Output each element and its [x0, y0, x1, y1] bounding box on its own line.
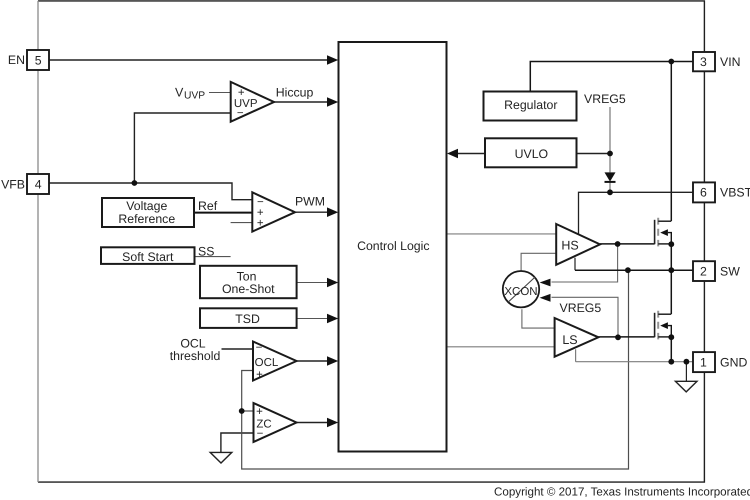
svg-text:+: + — [256, 369, 263, 381]
svg-text:+: + — [256, 406, 263, 418]
svg-text:VIN: VIN — [720, 55, 741, 69]
svg-text:LS: LS — [562, 333, 577, 347]
svg-text:Control Logic: Control Logic — [357, 239, 429, 253]
svg-text:EN: EN — [8, 53, 25, 67]
svg-text:GND: GND — [720, 356, 747, 370]
svg-text:+: + — [238, 87, 245, 99]
svg-text:V: V — [175, 86, 184, 100]
svg-text:6: 6 — [700, 185, 707, 199]
svg-text:Ref: Ref — [198, 199, 218, 213]
svg-text:Voltage: Voltage — [126, 199, 167, 213]
svg-text:Hiccup: Hiccup — [276, 86, 314, 100]
svg-text:2: 2 — [700, 264, 707, 278]
svg-text:SS: SS — [198, 244, 214, 258]
svg-text:OCL: OCL — [255, 357, 279, 369]
svg-text:5: 5 — [35, 53, 42, 67]
svg-text:VREG5: VREG5 — [584, 92, 626, 106]
svg-text:XCON: XCON — [504, 286, 537, 298]
svg-text:Copyright © 2017, Texas Instru: Copyright © 2017, Texas Instruments Inco… — [494, 486, 750, 499]
svg-text:−: − — [256, 342, 263, 354]
svg-text:Soft Start: Soft Start — [122, 250, 174, 264]
svg-text:SW: SW — [720, 265, 740, 279]
svg-text:TSD: TSD — [235, 312, 260, 326]
svg-text:−: − — [257, 428, 264, 440]
svg-text:UVP: UVP — [184, 90, 205, 101]
svg-text:VREG5: VREG5 — [560, 301, 602, 315]
svg-text:One-Shot: One-Shot — [222, 282, 275, 296]
svg-text:PWM: PWM — [295, 195, 325, 209]
svg-text:3: 3 — [700, 55, 707, 69]
svg-text:Reference: Reference — [118, 212, 175, 226]
svg-text:threshold: threshold — [170, 349, 221, 363]
svg-text:4: 4 — [35, 177, 42, 191]
svg-text:1: 1 — [700, 355, 707, 369]
svg-text:+: + — [257, 218, 264, 230]
svg-text:UVLO: UVLO — [515, 147, 549, 161]
svg-text:−: − — [237, 107, 244, 119]
svg-text:VBST: VBST — [720, 186, 750, 200]
svg-text:VFB: VFB — [1, 177, 25, 191]
svg-text:Regulator: Regulator — [504, 98, 557, 112]
svg-text:HS: HS — [561, 238, 578, 252]
